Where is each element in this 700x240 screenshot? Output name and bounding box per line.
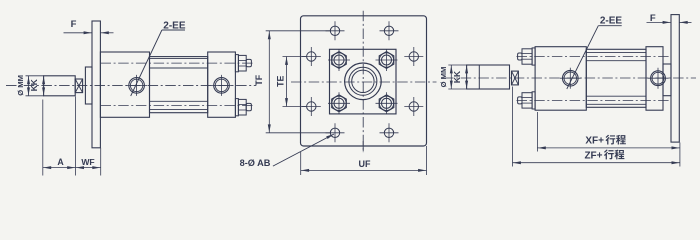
middle view bottom edge center tick [362,141,364,152]
right view main centerline [443,77,696,79]
dimension extension lines bottom left view [42,100,44,176]
dimension ZF+stroke [513,162,680,164]
right view KK dimension arrows [465,65,468,73]
middle view flange plate face [301,16,427,146]
svg-text:ZF+: ZF+ [584,150,602,161]
left view bottom tie rod end stub [246,103,251,110]
right view rear cap block [646,47,663,110]
left view bottom tie rod washer [235,99,238,116]
svg-text:KK: KK [29,79,39,91]
right view front head block [535,47,586,110]
left view bottom tie rod lines [150,100,208,102]
svg-text:Ø MM: Ø MM [16,75,25,96]
right view rod thread division line [478,65,480,89]
right view bottom tie rod nut [522,93,532,108]
left view cylinder head block [100,52,149,117]
middle view rod bushing circle [349,67,377,95]
right view top tie rod washer [532,48,535,65]
left view cylinder tube [150,57,208,113]
left view MM extension lines [26,75,45,77]
svg-text:TE: TE [275,75,285,86]
left view top tie rod lines [150,57,208,59]
right view piston rod [467,65,510,89]
svg-text:F: F [650,13,656,24]
right view cylinder tube [586,49,646,107]
svg-text:2-EE: 2-EE [600,15,623,26]
svg-text:A: A [57,157,64,167]
middle view inner flange square [330,49,397,114]
left view top tie rod centerline [101,62,253,64]
right view dimension extension lines [512,87,514,167]
middle view piston rod circle [352,70,374,92]
left view bottom tie rod centerline [101,104,253,106]
left view rod MM diameter dimension line [28,76,30,96]
middle view horizontal centerline [291,81,437,83]
svg-text:F: F [71,19,77,30]
right view bottom tie rod lines [586,95,646,97]
right view rear port EE [651,71,666,86]
dimension TF middle view [268,31,270,133]
dimension F right view [647,21,672,23]
right view front port EE [563,70,579,86]
svg-text:Ø MM: Ø MM [439,67,448,88]
dimension UF middle view [300,152,302,175]
middle view vertical centerline [362,11,364,153]
dimension TE middle view [286,57,288,107]
left view rear cap block [208,52,236,117]
svg-text:TF: TF [254,74,264,85]
middle view tie rod nuts front view [332,52,347,69]
left view main centerline [6,84,256,86]
left view KK dimension arrows [42,76,45,84]
right view top tie rod centerline [517,56,672,58]
svg-text:KK: KK [452,71,462,83]
svg-text:XF+: XF+ [585,136,604,147]
dimension F left view [64,32,93,34]
svg-text:WF: WF [81,157,94,167]
left view front flange plate [92,21,100,148]
right view top tie rod nut [522,49,532,64]
middle view gland boss circle [345,63,382,100]
right view rod MM dimension [450,65,452,89]
left view top tie rod end stub [246,59,251,66]
right view rod wrench-flat crossed box [512,71,519,85]
right view top tie rod lines [586,52,646,54]
left view front port EE [129,78,145,94]
left view top tie rod nut [238,55,246,71]
right view top tie rod end stub [518,53,522,60]
dimension XF+stroke [537,147,680,149]
left view rod gland block [85,67,92,104]
right view bottom tie rod centerline [517,99,672,101]
right view rear neck spacer [663,64,671,96]
right view bottom tie rod end stub [518,97,522,104]
right view bottom tie rod washer [532,92,535,109]
middle view mounting holes 8-AB [330,26,339,35]
dimension line A and WF left view [43,167,101,169]
left view rear port EE [214,78,230,94]
right view rear flange plate [671,15,679,143]
left view rod wrench-flat crossed box [75,79,82,93]
svg-text:UF: UF [359,159,371,169]
left view piston rod thread section [44,76,76,96]
left view top tie rod washer [235,55,238,72]
left view bottom tie rod nut [238,99,246,115]
svg-text:8-Ø AB: 8-Ø AB [240,158,271,168]
